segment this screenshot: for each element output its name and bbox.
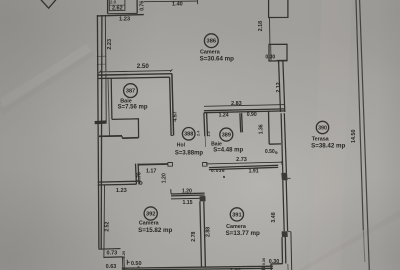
svg-text:2.0: 2.0 [110,0,117,5]
room 387 right wall outer [172,74,174,136]
hol west wall (vertical pair) [136,164,140,185]
box2 inner line [270,45,272,61]
svg-text:0.76: 0.76 [136,172,142,182]
bottom-left step verticals [122,257,124,270]
svg-text:Hol: Hol [177,142,186,148]
tick end 1.40 [196,0,198,4]
svg-text:0.29: 0.29 [121,250,126,258]
dimension line 2.50 [100,71,172,72]
svg-text:S=38.42 mp: S=38.42 mp [311,143,345,150]
svg-text:S=3.88mp: S=3.88mp [175,150,204,156]
svg-text:S=15.82 mp: S=15.82 mp [138,227,172,234]
svg-text:388: 388 [184,132,193,138]
svg-text:S=30.64 mp: S=30.64 mp [200,55,234,62]
wall cap [171,134,174,136]
left outer wall line [97,15,99,249]
svg-text:0.63: 0.63 [106,264,117,270]
svg-text:2.78: 2.78 [191,232,197,242]
dimension line 1.40 at top [144,0,198,3]
svg-text:2.50: 2.50 [137,63,150,70]
room 387 bottom wall [99,135,122,137]
svg-text:391: 391 [232,212,242,218]
wall pair below jamb2 [282,237,286,264]
svg-text:Terasa: Terasa [312,137,330,143]
wall jamb block left [95,120,107,124]
label frame inside box [109,0,125,11]
hol top thick wall piece [138,163,168,166]
tick 0.50 [127,260,130,265]
svg-text:14.50: 14.50 [351,130,357,144]
svg-text:0.90: 0.90 [247,112,257,118]
svg-text:2.4: 2.4 [196,130,201,136]
black jamb rect 392/391 [200,196,206,201]
wall under top-left box [97,15,144,16]
svg-text:1.15: 1.15 [182,200,192,206]
circle 391 [230,208,243,221]
svg-text:390: 390 [318,125,327,131]
svg-text:0.036: 0.036 [211,168,225,173]
svg-text:Baie: Baie [211,142,222,148]
svg-text:2.83: 2.83 [231,101,242,107]
dimension line 2.23 [104,15,107,72]
svg-text:0.73: 0.73 [107,251,118,257]
right wall pair (below junction) [281,113,286,173]
svg-text:S=4.48 mp: S=4.48 mp [213,148,243,154]
duct niche line [269,111,282,145]
circle 392 [144,207,157,220]
step to bottom [271,264,283,270]
wall pair window [283,180,288,231]
box2 [269,44,287,61]
jamb block 2 [282,231,288,237]
svg-text:2.62: 2.62 [112,5,123,11]
svg-text:1.23: 1.23 [116,188,127,194]
room391 left wall pair [200,201,206,267]
svg-text:S=13.77 mp: S=13.77 mp [226,230,260,237]
svg-text:1.91: 1.91 [249,169,259,175]
circle 387 [124,84,138,98]
svg-text:Baie: Baie [120,98,132,104]
svg-text:1.20: 1.20 [182,189,192,195]
room 387 right wall inner [170,77,172,135]
svg-text:386: 386 [207,39,217,45]
right outer wall lines [356,0,363,230]
svg-text:2.12: 2.12 [276,82,282,92]
divider 1.24/0.90 pair [240,113,243,132]
wall hol/392 tick [170,189,172,194]
paper crease bottom-right [298,210,400,270]
svg-text:387: 387 [126,89,135,95]
circle 388 [182,128,195,141]
svg-text:2.88: 2.88 [206,227,212,237]
svg-text:0.30: 0.30 [265,55,275,61]
top-left box (balcony label box) [108,0,138,14]
wire underline in label [110,4,125,6]
svg-text:0.76: 0.76 [140,1,146,11]
circle 389 [220,128,233,141]
dimension line 2.52 [103,185,106,257]
svg-text:1.5: 1.5 [206,130,211,136]
svg-text:Camera: Camera [139,221,160,227]
step wall horizontal [103,256,122,259]
tiny glyph at hol wall corner [140,182,143,185]
wall hol/392 pair [171,193,205,196]
small wall ticks on left wall [97,55,106,57]
dim line 2.73 with door jamb [206,162,282,164]
wall pair below box2 [279,61,285,112]
svg-text:1.17: 1.17 [146,168,157,174]
svg-text:0.30: 0.30 [262,258,266,265]
room 387 top wall outer [97,74,171,75]
top right box1 [269,0,288,18]
short duct line [108,78,110,136]
svg-text:S=7.56 mp: S=7.56 mp [118,104,148,110]
left inner wall line [100,15,103,249]
svg-text:1.24: 1.24 [219,113,229,119]
svg-text:1.20: 1.20 [161,173,167,183]
link line [269,18,271,45]
black square bottom [261,267,265,270]
svg-text:2.52: 2.52 [105,221,111,231]
baie389 south wall pair [209,165,278,169]
svg-text:2.23: 2.23 [107,39,113,50]
dim line 1.15 [171,197,204,200]
bath 387 enclosure [111,78,138,137]
camera386 south wall pair [204,109,285,113]
svg-text:2.18: 2.18 [258,21,264,31]
bottom wall pair [122,266,273,270]
svg-text:1.23: 1.23 [119,17,130,23]
svg-text:4.57: 4.57 [172,111,178,122]
paper crease top-left diagonal [0,44,92,108]
svg-text:392: 392 [146,211,156,217]
circle 386 [204,34,218,48]
hol south-left wall pair [98,181,136,185]
tick 0.73 [99,248,121,251]
svg-text:2.73: 2.73 [236,157,247,163]
jamb block 1 [281,173,287,181]
svg-text:1.40: 1.40 [172,1,183,7]
diamond tip (north arrow) at top-left [40,0,57,8]
svg-text:3.48: 3.48 [271,212,277,222]
room 387 top wall inner [97,77,169,78]
inner partition line (duct) [105,74,107,122]
terrace outer corner line [290,232,293,270]
svg-text:389: 389 [222,133,231,139]
door jamb hollow rect [168,162,173,166]
dim line 2.83 [204,105,285,107]
svg-text:1.36: 1.36 [259,124,265,134]
svg-text:0.30: 0.30 [269,259,280,265]
circle 390 [316,121,328,133]
partition 388/389 pair [204,113,208,137]
partition stub [204,136,206,147]
